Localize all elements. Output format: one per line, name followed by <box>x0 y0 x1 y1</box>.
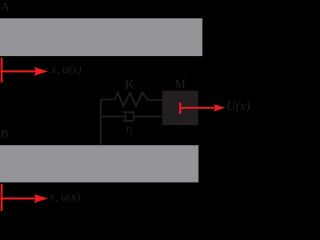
svg-text:U(x): U(x) <box>226 98 250 113</box>
svg-text:M: M <box>175 77 186 91</box>
svg-text:K: K <box>125 76 135 91</box>
svg-text:A: A <box>1 0 10 13</box>
svg-text:η: η <box>126 123 132 135</box>
svg-text:B: B <box>1 126 9 140</box>
svg-text:x, u(x): x, u(x) <box>50 62 82 76</box>
svg-text:x, u(x): x, u(x) <box>49 190 81 204</box>
